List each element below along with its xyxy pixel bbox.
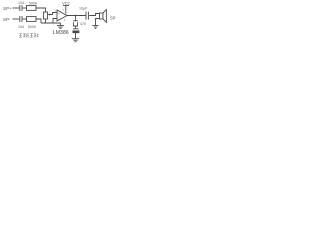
minus sign inside op-amp (58, 17, 59, 21)
svg-text:10µF: 10µF (79, 7, 88, 11)
svg-text:104: 104 (18, 25, 24, 29)
ground below C5 (72, 39, 79, 42)
svg-text:500K: 500K (28, 25, 37, 29)
resistor R1 (27, 6, 37, 11)
ground under op-amp (57, 23, 64, 29)
svg-text:-: - (58, 17, 59, 21)
ground speaker (92, 26, 98, 29)
value label 104 (C1) (18, 1, 24, 5)
wire pot bottom to ground bus (45, 19, 47, 23)
wire C3 to speaker top (89, 14, 99, 16)
wire VCC to pin6 (65, 5, 67, 13)
speaker LS cone (103, 10, 106, 23)
junction output node (75, 15, 77, 17)
capacitor C2 (20, 16, 22, 22)
value label 470 (C4) (80, 22, 86, 26)
wire C1 to R1 (23, 7, 27, 9)
wire -input to ground bus (53, 19, 57, 24)
wire speaker bottom to ground (96, 19, 100, 26)
svg-text:LM386: LM386 (53, 30, 69, 36)
capacitor C1 (20, 5, 22, 11)
wire ground bus (41, 22, 61, 24)
capacitor C5 bottom plate (73, 31, 79, 33)
node SP+ input label (3, 6, 12, 11)
svg-text:+: + (58, 11, 60, 15)
plus sign inside op-amp (58, 11, 60, 15)
svg-text:500K: 500K (29, 1, 38, 5)
node SP- input label (3, 17, 11, 22)
pin number 3 (54, 9, 56, 13)
power VCC label (62, 0, 71, 5)
svg-text:SP-: SP- (3, 17, 11, 22)
capacitor C4 bypass branch top lead (75, 16, 77, 21)
annotation Chinese caption (glyph strokes) (19, 34, 39, 38)
potentiometer RP (44, 12, 48, 19)
capacitor C5 top plate (73, 28, 79, 30)
value label 500K (R2) (28, 25, 37, 29)
svg-text:SP+: SP+ (3, 6, 12, 11)
resistor R2 (27, 17, 37, 22)
svg-text:VCC: VCC (62, 0, 71, 5)
capacitor C4 bottom plate (cup) (73, 22, 77, 26)
pin number 6 (62, 7, 64, 11)
capacitor C4 top plate (73, 20, 78, 22)
IC label LM386 (53, 30, 69, 36)
wire R2 down to ground bus (36, 19, 41, 23)
value label 500K (R1) (29, 1, 38, 5)
power VCC bar (63, 4, 69, 6)
wire C2 to R2 (23, 18, 27, 20)
speaker label SP (110, 15, 116, 20)
wire C5 to ground (75, 33, 77, 39)
capacitor C3 output coupling (86, 12, 88, 20)
wire R1 to pot top (36, 8, 46, 12)
pin number 4 (64, 18, 66, 22)
value label 104 (C2) (18, 25, 24, 29)
wire SP+ to C1 (13, 7, 20, 9)
wire op-amp output (67, 15, 86, 17)
wiper arrowhead (48, 14, 50, 16)
wire SP- to C2 (13, 18, 20, 20)
value label 10uF (C3) (79, 7, 88, 11)
svg-text:104: 104 (18, 1, 24, 5)
svg-text:SP: SP (110, 15, 116, 20)
op-amp U1 LM386 triangle (57, 10, 67, 21)
speaker LS coil box (100, 13, 104, 19)
wire C4 to C5 (75, 26, 77, 28)
wire pot wiper to +input (49, 13, 57, 15)
svg-text:470: 470 (80, 22, 86, 26)
